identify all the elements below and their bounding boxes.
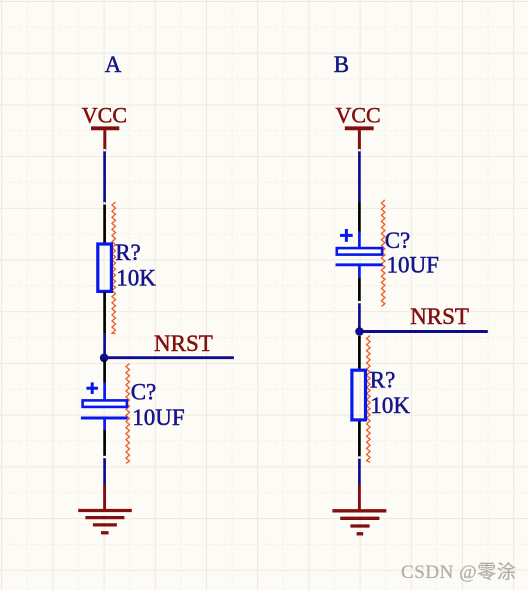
wire C? to ground (circuit A) xyxy=(103,458,106,486)
svg-text:VCC: VCC xyxy=(82,102,127,127)
resistor R? (circuit A) xyxy=(98,244,112,291)
capacitor C? (circuit A) xyxy=(81,382,128,430)
svg-text:R?: R? xyxy=(370,367,396,392)
error squiggle on R? (circuit A) xyxy=(112,202,116,334)
pin - of capacitor C? (circuit A) xyxy=(103,430,106,456)
svg-text:A: A xyxy=(105,52,122,77)
pin 2 of resistor R? (circuit B) xyxy=(358,421,361,457)
junction node NRST (circuit B) xyxy=(355,327,364,336)
svg-text:10UF: 10UF xyxy=(387,253,439,278)
capacitor C? (circuit B) xyxy=(336,229,383,278)
pin + of capacitor C? (circuit B) xyxy=(358,202,361,232)
ground (circuit A) xyxy=(78,485,132,533)
wire C? to node NRST (circuit B) xyxy=(358,303,361,332)
svg-text:C?: C? xyxy=(385,228,411,253)
svg-text:NRST: NRST xyxy=(154,331,213,356)
svg-text:VCC: VCC xyxy=(336,102,381,127)
junction node NRST (circuit A) xyxy=(100,354,109,363)
svg-text:R?: R? xyxy=(115,240,141,265)
svg-text:10UF: 10UF xyxy=(132,405,184,430)
wire NRST (circuit B) xyxy=(359,330,487,333)
ground (circuit B) xyxy=(332,485,386,534)
resistor R? (circuit B) xyxy=(352,370,366,420)
pin 1 of resistor R? (circuit B) xyxy=(358,336,361,369)
pin - of capacitor C? (circuit B) xyxy=(358,278,361,302)
pin 2 of resistor R? (circuit A) xyxy=(103,292,106,333)
wire NRST (circuit A) xyxy=(105,356,234,359)
svg-text:B: B xyxy=(334,52,349,77)
pin + of capacitor C? (circuit A) xyxy=(103,360,106,383)
svg-text:C?: C? xyxy=(131,380,157,405)
pin 1 of resistor R? (circuit A) xyxy=(103,203,106,243)
power port VCC (circuit A) xyxy=(82,102,127,150)
wire VCC to R? (circuit A) xyxy=(103,150,106,203)
wire R? to ground (circuit B) xyxy=(358,458,361,485)
svg-text:CSDN @零涂: CSDN @零涂 xyxy=(401,561,516,583)
svg-text:NRST: NRST xyxy=(410,304,469,329)
pin hotspot dots xyxy=(103,149,360,459)
error squiggle on C? (circuit B) xyxy=(381,200,385,307)
svg-text:10K: 10K xyxy=(116,266,156,291)
wire R? to node NRST (circuit A) xyxy=(103,333,106,358)
error squiggle on C? (circuit A) xyxy=(126,364,129,464)
svg-text:10K: 10K xyxy=(370,393,410,418)
error squiggle on R? (circuit B) xyxy=(367,336,371,463)
wire VCC to C? (circuit B) xyxy=(358,150,361,202)
power port VCC (circuit B) xyxy=(336,102,381,150)
